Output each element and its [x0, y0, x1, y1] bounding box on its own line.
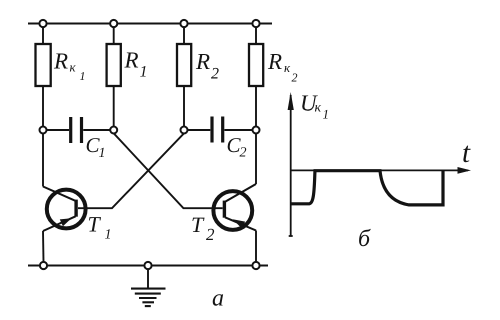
svg-text:1: 1 — [323, 107, 330, 122]
wire R1 column: rail to resistor, resistor to node — [113, 24, 115, 45]
node on top rail above RK1 — [39, 20, 46, 27]
node on top rail above RK2 — [252, 20, 259, 27]
node on top rail above R2 — [180, 20, 187, 27]
node collector T2 / C2 right — [253, 127, 260, 134]
label RK2 — [267, 49, 298, 85]
node on top rail above R1 — [110, 20, 117, 27]
resistor RK1 — [36, 44, 51, 86]
svg-text:2: 2 — [240, 146, 247, 161]
label R1 — [124, 48, 148, 81]
resistor RK2 — [249, 44, 263, 86]
capacitor C1 — [47, 117, 111, 143]
wire top supply rail — [28, 23, 272, 25]
node ground rail left (emitter T1) — [40, 262, 47, 269]
svg-text:к: к — [70, 60, 77, 75]
svg-text:R: R — [195, 49, 210, 74]
svg-text:1: 1 — [99, 146, 106, 161]
wire bottom ground rail — [28, 265, 268, 267]
node collector T1 / C1 left — [40, 127, 47, 134]
resistor R2 — [177, 44, 191, 86]
capacitor C2 — [188, 117, 253, 143]
node ground rail centre — [144, 262, 151, 269]
svg-text:1: 1 — [140, 64, 148, 81]
waveform U_K1(t) — [291, 171, 443, 205]
wire cross-coupling: node under R1 to base of T2 — [114, 133, 223, 208]
graph y-axis U_K1 — [290, 95, 292, 236]
svg-text:1: 1 — [80, 69, 86, 83]
svg-text:R: R — [124, 48, 139, 73]
wire cross-coupling: node under R2 to base of T1 — [78, 133, 184, 208]
node ground rail right (emitter T2) — [252, 262, 259, 269]
label U_K1 axis — [300, 91, 329, 122]
ground — [131, 269, 166, 306]
svg-text:2: 2 — [292, 71, 298, 85]
svg-text:t: t — [462, 137, 471, 169]
svg-text:к: к — [315, 101, 322, 116]
label RK1 — [53, 49, 86, 84]
node base coupling under R1 — [110, 127, 117, 134]
svg-text:T: T — [88, 212, 102, 237]
label R2 — [195, 49, 219, 83]
wire R2 column: rail to resistor, resistor to node — [183, 24, 185, 45]
svg-text:1: 1 — [105, 228, 112, 243]
label C1 — [86, 133, 106, 161]
label T2 — [191, 212, 215, 244]
svg-text:2: 2 — [206, 225, 215, 244]
node base coupling under R2 — [181, 127, 188, 134]
transistor T1 — [43, 187, 86, 263]
svg-text:а: а — [212, 286, 224, 312]
svg-text:к: к — [284, 60, 291, 75]
wire RK2 column: rail to resistor, resistor to node, node to collector bend — [255, 24, 257, 45]
svg-text:б: б — [358, 226, 371, 252]
svg-text:T: T — [191, 212, 205, 237]
resistor R1 — [107, 44, 121, 86]
svg-text:R: R — [267, 49, 282, 74]
label T1 — [88, 212, 112, 243]
transistor T2 — [213, 184, 256, 262]
svg-text:2: 2 — [211, 66, 219, 83]
wire RK1 column: rail to resistor, resistor to node, node to collector bend — [42, 24, 44, 45]
graph x-axis t — [291, 169, 468, 171]
svg-text:R: R — [53, 49, 68, 74]
label C2 — [227, 133, 247, 161]
